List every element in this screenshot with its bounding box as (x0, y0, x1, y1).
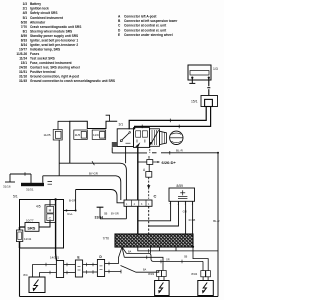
diagonal to igniter 8/33 left pin (121, 266, 159, 273)
svg-text:11/25: 11/25 (44, 133, 51, 137)
svg-text:8/34: 8/34 (21, 43, 27, 47)
svg-text:SB: SB (104, 213, 108, 216)
svg-text:SRS: SRS (27, 226, 35, 231)
svg-text:Igniter, seat belt pre-tension: Igniter, seat belt pre-tensioner 2 (30, 43, 78, 47)
7/70 pin fan to connector D and wires (119, 247, 127, 264)
svg-text:1: 1 (148, 204, 150, 206)
wire fuse 11/25 top to fuse group (58, 121, 70, 129)
8/59 pin 4 wire (138, 201, 171, 221)
svg-text:1/3: 1/3 (23, 2, 28, 6)
svg-text:D: D (118, 28, 121, 32)
svg-text:BY-GR: BY-GR (89, 172, 98, 176)
legend right column (118, 15, 178, 37)
wire to igniter row 1 (127, 247, 204, 261)
battery 1/3 (188, 65, 211, 80)
svg-text:3/1: 3/1 (119, 123, 124, 127)
wire right edge down to crash sensor area (217, 153, 219, 297)
svg-text:BL-R: BL-R (176, 149, 184, 153)
svg-text:Ground connection, right A-pos: Ground connection, right A-post (30, 75, 80, 79)
switch 3/1 left sub-box (117, 129, 133, 147)
8/59 pin 2 wire (149, 201, 179, 226)
svg-text:6/26:D+: 6/26:D+ (162, 160, 177, 165)
SRS lamp to left edge (20, 226, 26, 228)
arrow and 6/26:D+ (153, 161, 158, 163)
terminal wire on 5/1 right edge (64, 190, 125, 211)
svg-text:Crash sensor/diagnostic unit S: Crash sensor/diagnostic unit SRS (30, 25, 81, 29)
svg-text:BA: BA (143, 268, 147, 271)
svg-text:7/70: 7/70 (103, 237, 110, 241)
svg-text:Connector left A-post: Connector left A-post (124, 15, 157, 19)
svg-text:2/1: 2/1 (23, 7, 28, 11)
terminal block on 3/1 lower left (112, 142, 117, 147)
tick on upper feed wire (169, 119, 171, 123)
8/59 pin 1 wire (R-SB) (192, 201, 194, 234)
svg-text:C: C (49, 216, 52, 220)
fuse 11/9 (92, 130, 106, 139)
svg-text:E: E (77, 256, 80, 260)
8/59 pin 3 wire (GR) (185, 201, 187, 234)
svg-text:R+L: R+L (68, 212, 74, 216)
connector C strip (124, 200, 152, 206)
wires below C strip (137, 206, 139, 234)
dimmer rheostat (149, 129, 159, 147)
tick on y257 wire (146, 256, 148, 260)
fuse 11/41 on left edge (16, 230, 22, 242)
lamp holder (160, 131, 167, 144)
svg-text:C: C (118, 24, 121, 28)
svg-text:BA: BA (128, 250, 132, 253)
svg-text:6/26: 6/26 (21, 20, 27, 24)
svg-text:H: H (49, 209, 52, 213)
svg-text:1: 1 (126, 204, 128, 206)
svg-text:31/54: 31/54 (95, 216, 104, 220)
svg-text:8/34: 8/34 (191, 272, 197, 276)
svg-text:B: B (148, 156, 150, 160)
legend left column (16, 2, 115, 83)
svg-text:4/5: 4/5 (36, 204, 41, 208)
svg-text:11/9: 11/9 (93, 133, 99, 137)
svg-text:11/24: 11/24 (19, 57, 27, 61)
svg-text:5/1: 5/1 (23, 16, 28, 20)
svg-text:31/45: 31/45 (19, 79, 27, 83)
svg-text:8/59: 8/59 (177, 184, 184, 188)
safety circuit 4/5 (45, 205, 56, 223)
svg-text:Ignition lock: Ignition lock (30, 7, 49, 11)
svg-text:B: B (118, 19, 121, 23)
ticks row1 (161, 260, 182, 264)
pin numbers 8/59 (170, 201, 194, 205)
connector B tap (138, 161, 147, 163)
svg-text:Connector at central el. unit: Connector at central el. unit (124, 24, 167, 28)
svg-text:Connector at left suspension t: Connector at left suspension tower (124, 19, 178, 23)
svg-text:1/3: 1/3 (213, 67, 218, 71)
switch 3/1 right sub-box (134, 128, 150, 148)
svg-text:11/5-26: 11/5-26 (16, 52, 27, 56)
igniter 8/33 connector squares (157, 271, 162, 277)
ground 31/16 (5, 172, 31, 183)
svg-text:31/16: 31/16 (3, 184, 11, 188)
svg-text:C: C (154, 194, 157, 199)
svg-text:Safety circuit SRS: Safety circuit SRS (30, 11, 57, 15)
bottom border wire (20, 296, 219, 298)
wire 7/70 pin x138 to right edge wire (138, 247, 218, 251)
svg-text:4/5: 4/5 (23, 11, 28, 15)
svg-text:GR: GR (166, 259, 170, 262)
junction dot BL-R corner (217, 152, 219, 154)
double tick marker (48, 182, 53, 185)
main lamp feed wire (thick vertical x138) (137, 147, 139, 200)
wire colour labels under instrument (104, 213, 119, 216)
svg-text:8/59: 8/59 (21, 34, 27, 38)
wire BL-R from switch pin across to right edge (112, 147, 218, 153)
dashed wire A to connector C with arrow (148, 177, 150, 199)
svg-text:Alternator: Alternator (30, 20, 46, 24)
wire feed lower (135, 107, 211, 130)
svg-text:10/77: 10/77 (19, 47, 27, 51)
svg-text:BY-GR: BY-GR (111, 213, 119, 216)
SRS warning lamp 10/77 (25, 223, 39, 232)
svg-text:BL-R: BL-R (213, 219, 219, 223)
svg-text:8/1: 8/1 (23, 29, 28, 33)
svg-text:31/51: 31/51 (19, 70, 27, 74)
igniter 8/33 (155, 281, 170, 296)
dashed wire from dimmer down (149, 146, 151, 153)
svg-text:Fuses: Fuses (30, 52, 39, 56)
svg-text:Contact reel, SRS steering whe: Contact reel, SRS steering wheel (30, 66, 80, 70)
svg-text:Steering wheel module SRS: Steering wheel module SRS (30, 29, 72, 33)
8/4 wires up to contact reel (33, 265, 57, 278)
svg-text:B-GR: B-GR (69, 198, 76, 202)
svg-text:7/70: 7/70 (21, 25, 27, 29)
svg-text:SB: SB (184, 255, 188, 258)
feed stub above fuse group (106, 115, 110, 121)
wire 4/5 to SRS lamp (39, 221, 50, 228)
fuse 15/1 (201, 96, 218, 107)
tick on y251 wire (148, 249, 150, 253)
svg-text:10/77: 10/77 (26, 218, 34, 222)
svg-text:11/41: 11/41 (24, 237, 32, 241)
indicator lamp bulb (170, 131, 183, 144)
svg-text:Battery: Battery (30, 2, 41, 6)
svg-text:Connector at central el. unit: Connector at central el. unit (124, 28, 167, 32)
strip pin digits (126, 204, 150, 206)
svg-text:Test socket SRS: Test socket SRS (30, 57, 55, 61)
svg-text:14/121: 14/121 (50, 256, 60, 260)
wire feed upper (fuse output to ignition switch) (129, 107, 206, 130)
wire colour marks bottom run (128, 250, 188, 271)
connector D (97, 260, 104, 277)
svg-text:15/1: 15/1 (21, 61, 27, 65)
lamp feed wire inside 5/1 down to contact reel (56, 200, 57, 261)
wire 7/70 corner to igniter 8/34 right pin (193, 247, 208, 271)
ground rail 31/51 (21, 183, 44, 186)
left border wire (19, 248, 21, 297)
igniter 8/34 connector squares (201, 271, 206, 277)
tick on BL-R wire (169, 151, 171, 155)
steering wheel module 8/4 (lightning box) (29, 277, 45, 293)
svg-text:8/4: 8/4 (23, 273, 28, 277)
wire rail to BY-GR (43, 176, 59, 183)
svg-text:Connector under steering wheel: Connector under steering wheel (124, 33, 173, 37)
junction dot terminal (66, 210, 68, 212)
break tick on instrument wire (92, 161, 94, 165)
standby power unit 8/59 (169, 188, 195, 201)
wire y257 to igniter 8/33 right pin (124, 257, 163, 270)
svg-text:4: 4 (134, 204, 136, 206)
crash sensor / diagnostic unit 7/70 (115, 234, 193, 247)
wire battery plus to fuse 15/1 (207, 79, 210, 96)
igniter 8/34 (198, 281, 214, 296)
svg-text:Indicator lamp, SRS: Indicator lamp, SRS (30, 47, 60, 51)
svg-text:11/5: 11/5 (75, 133, 81, 137)
contact reel 14/121 (56, 261, 63, 278)
wires E to connector D (83, 265, 98, 273)
svg-text:Positive terminal: Positive terminal (30, 70, 56, 74)
fuse group outline (central electrical unit) (70, 121, 117, 163)
svg-text:Standby power supply unit SRS: Standby power supply unit SRS (30, 34, 78, 38)
svg-text:R-SB: R-SB (189, 218, 196, 222)
svg-text:D: D (99, 255, 102, 259)
fuse 11/25 (standalone) (53, 130, 62, 141)
ground 31/54 (97, 206, 127, 219)
connector A (148, 164, 150, 171)
svg-text:31/16: 31/16 (19, 75, 27, 79)
ticks on lower feed wire (178, 125, 180, 129)
wires reel to connector E (64, 265, 76, 273)
connector E (75, 260, 82, 277)
BY-GR wire to connector C (59, 176, 121, 200)
svg-text:31/51: 31/51 (26, 188, 34, 192)
svg-text:Ground connection to crash sen: Ground connection to crash sensor/diagno… (30, 79, 115, 83)
svg-text:Fuse, combined instrument: Fuse, combined instrument (30, 61, 73, 65)
junction dot wire bend (75, 210, 77, 212)
lightning bolt 8/4 (34, 280, 39, 291)
svg-text:A: A (118, 15, 121, 19)
svg-text:Igniter, seat belt pre-tension: Igniter, seat belt pre-tensioner 1 (30, 38, 78, 42)
svg-text:5/1: 5/1 (13, 194, 18, 198)
capacitor symbol in 8/59 (178, 190, 187, 198)
thick ground path on 5/1 left edge (19, 227, 21, 248)
svg-text:GR: GR (183, 209, 187, 213)
combined instrument 5/1 box (20, 200, 64, 249)
svg-text:15/1: 15/1 (191, 99, 198, 103)
svg-text:8/33: 8/33 (21, 38, 27, 42)
fuse 11/25 pin down (58, 140, 60, 176)
node on 5/1 top edge (54, 198, 56, 200)
fuse 11/5 (74, 130, 88, 139)
svg-text:8/33: 8/33 (148, 272, 154, 276)
wires D to 7/70 fan (105, 264, 121, 272)
svg-text:24/26: 24/26 (19, 66, 27, 70)
node 7/70 bottom right (192, 246, 194, 248)
connector B (147, 160, 153, 165)
switch pin to long instrument wire (125, 147, 127, 164)
svg-text:Combined instrument: Combined instrument (30, 16, 64, 20)
ground at battery minus (189, 79, 195, 84)
svg-text:E: E (118, 33, 120, 37)
svg-text:3: 3 (141, 204, 143, 206)
long wire to C-connector (rounded bend) (59, 163, 126, 200)
stub 5/1 top edge to H square (49, 200, 51, 207)
